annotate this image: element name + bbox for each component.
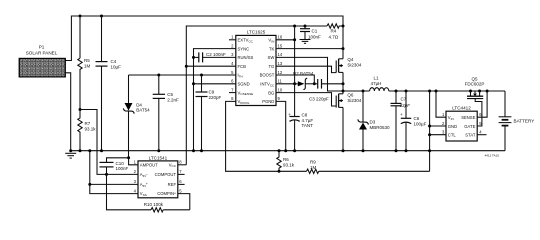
comparator box LTC1541 <box>138 155 178 197</box>
wire output rail <box>343 90 370 92</box>
resistor R10 100k <box>144 202 190 212</box>
wire PGND pin 9 to ground <box>276 101 286 150</box>
wire FCB / VIN top link / LTC1541 VCC column <box>186 26 305 165</box>
svg-text:FDC602P: FDC602P <box>465 82 485 87</box>
pin 7 stub COMPOUT <box>178 173 185 175</box>
svg-text:Si2304: Si2304 <box>347 62 362 67</box>
wire SYNC / SGND / C2 ground column <box>194 49 236 151</box>
svg-text:BATTERY: BATTERY <box>514 119 535 124</box>
svg-text:7: 7 <box>231 87 234 92</box>
wire INTVCC pin 11 <box>276 83 298 85</box>
svg-text:4.7µF: 4.7µF <box>302 118 314 123</box>
node top rail C4 tap <box>100 15 103 18</box>
wire output rail right <box>389 90 505 92</box>
LTC1625 right pin labels <box>260 38 275 105</box>
svg-text:3: 3 <box>134 179 137 184</box>
svg-text:4: 4 <box>479 130 482 135</box>
ideal diode box LTC4412 <box>446 106 477 142</box>
svg-text:Q6: Q6 <box>347 93 354 98</box>
svg-text:R9: R9 <box>310 160 316 165</box>
svg-text:EXTVCC: EXTVCC <box>238 38 254 44</box>
svg-text:2.2nF: 2.2nF <box>167 98 179 103</box>
transistor Q6 Si2304 <box>336 91 362 152</box>
svg-text:VSS: VSS <box>140 191 147 197</box>
svg-text:5: 5 <box>179 188 182 193</box>
svg-text:RUN/SS: RUN/SS <box>238 55 254 60</box>
inductor L1 47uH <box>370 76 389 92</box>
svg-text:8: 8 <box>231 96 234 101</box>
svg-text:C3 220pF: C3 220pF <box>309 97 329 102</box>
LTC1625 left pin labels <box>238 38 254 105</box>
svg-text:D3: D3 <box>370 120 376 125</box>
wire VPROG loop (pin 8) <box>226 101 279 171</box>
svg-text:4: 4 <box>134 188 137 193</box>
svg-text:+: + <box>288 112 291 117</box>
resistor R6 93.1k <box>277 149 295 173</box>
node VIN / R4 right <box>342 25 345 28</box>
wire BOOST pin 12 to D2/C3 junction <box>276 75 314 84</box>
svg-text:TK: TK <box>269 46 275 51</box>
wire VIN pin 16 riser and INTVCC tie / C8 column <box>294 26 296 117</box>
svg-text:C8: C8 <box>302 113 308 118</box>
svg-text:COMPIN+: COMPIN+ <box>157 191 176 196</box>
wire ITH net (LTC1625 pin 5) <box>129 74 236 76</box>
svg-text:GATE: GATE <box>464 124 475 129</box>
svg-text:R4: R4 <box>331 29 337 34</box>
diode D2 BAT54 <box>293 71 318 90</box>
capacitor C10 100nF <box>100 161 129 175</box>
svg-text:C9: C9 <box>209 90 215 95</box>
ground rail <box>71 150 505 152</box>
resistor R7 93.1k <box>78 108 96 152</box>
svg-text:220pF: 220pF <box>209 95 222 100</box>
svg-text:1M: 1M <box>310 165 317 170</box>
svg-text:C4: C4 <box>111 59 117 64</box>
svg-text:3: 3 <box>231 52 234 57</box>
svg-text:100nF: 100nF <box>116 166 129 171</box>
capacitor C6 100uF <box>400 90 427 153</box>
capacitor C7 33uF <box>391 90 411 153</box>
svg-text:C1: C1 <box>312 29 318 34</box>
svg-text:93.1k: 93.1k <box>283 163 295 168</box>
svg-text:5: 5 <box>231 70 234 75</box>
svg-text:PGND: PGND <box>262 99 274 104</box>
svg-text:+: + <box>400 112 403 117</box>
pin 6 stub REF <box>178 183 185 185</box>
node top rail R5 tap <box>79 15 82 18</box>
svg-text:2: 2 <box>134 169 137 174</box>
capacitor C5 2.2nF <box>153 74 179 153</box>
svg-text:1M: 1M <box>84 64 91 69</box>
svg-text:INTVCC: INTVCC <box>260 82 275 88</box>
svg-text:BG: BG <box>268 90 274 95</box>
svg-text:AMPOUT: AMPOUT <box>140 162 158 167</box>
diode D4 BAT54 <box>123 75 150 158</box>
LTC1625 pin numbers left <box>231 35 234 102</box>
svg-text:16: 16 <box>278 35 283 40</box>
svg-text:TANT: TANT <box>302 123 314 128</box>
svg-text:9: 9 <box>278 96 281 101</box>
wire GATE pin 5 to Q5 gate <box>475 99 482 126</box>
wire SGND pin 6 <box>194 83 236 85</box>
svg-text:Si2304: Si2304 <box>347 98 362 103</box>
svg-text:100µF: 100µF <box>414 121 427 126</box>
wire divider tap to AIN- of LTC1541 <box>80 110 138 175</box>
svg-text:6: 6 <box>179 179 182 184</box>
wire CTL pin 3 <box>430 134 446 136</box>
svg-text:VIN: VIN <box>448 115 454 121</box>
svg-text:P1: P1 <box>39 44 45 49</box>
capacitor C8 4.7uF TANT <box>288 112 313 152</box>
svg-text:11: 11 <box>278 79 283 84</box>
svg-text:10µF: 10µF <box>111 65 122 70</box>
svg-text:L1: L1 <box>373 76 379 81</box>
svg-text:AIN+: AIN+ <box>140 182 148 188</box>
resistor R9 1M <box>279 160 430 174</box>
resistor R4 4.7ohm <box>305 24 343 40</box>
node switch node <box>342 90 345 93</box>
svg-text:LTC1625: LTC1625 <box>247 30 266 35</box>
svg-text:4: 4 <box>231 61 234 66</box>
svg-text:STAT: STAT <box>465 133 476 138</box>
wire AIN+ pin 3 to ground <box>90 151 138 194</box>
ground symbol at panel minus <box>65 149 76 158</box>
svg-text:R5: R5 <box>84 58 90 63</box>
svg-text:12: 12 <box>278 70 283 75</box>
svg-text:93.1k: 93.1k <box>85 127 97 132</box>
resistor R5 1M <box>78 16 91 110</box>
svg-text:6: 6 <box>231 79 234 84</box>
battery <box>499 91 535 151</box>
svg-text:1: 1 <box>442 112 445 117</box>
solar panel P1 <box>19 44 65 77</box>
capacitor C4 10uF <box>96 16 122 152</box>
svg-text:VOSENSE: VOSENSE <box>238 90 254 96</box>
svg-text:4412 TA10: 4412 TA10 <box>485 154 500 158</box>
svg-text:VIN: VIN <box>268 38 274 44</box>
pin 7 stub VOSENSE <box>229 92 236 94</box>
ground symbol under C1 <box>300 40 311 44</box>
svg-text:1: 1 <box>134 160 137 165</box>
svg-text:13: 13 <box>278 61 283 66</box>
wire VIN pin 1 riser <box>436 91 446 117</box>
svg-text:1: 1 <box>231 35 234 40</box>
svg-text:Q5: Q5 <box>471 76 478 81</box>
svg-text:ITH: ITH <box>238 73 243 79</box>
wire BG pin 10 to Q6 gate <box>276 93 336 106</box>
svg-text:3: 3 <box>442 130 445 135</box>
svg-text:CTL: CTL <box>448 133 457 138</box>
wire GND pin 2 to ground rail <box>430 125 446 127</box>
svg-text:8: 8 <box>179 160 182 165</box>
svg-text:COMPOUT: COMPOUT <box>155 172 177 177</box>
svg-text:C5: C5 <box>167 92 173 97</box>
capacitor C1 100nF <box>300 25 321 40</box>
svg-text:BAT54: BAT54 <box>136 108 150 113</box>
diode D3 MBR0530 <box>358 90 390 153</box>
wire R10 loop from AIN- node to COMPIN+ <box>107 174 152 209</box>
svg-text:TG: TG <box>268 64 274 69</box>
svg-text:2: 2 <box>231 43 234 48</box>
svg-text:2: 2 <box>442 121 445 126</box>
wire COMPIN+ pin 5 <box>178 194 190 210</box>
wire SW pin 14 to switch node <box>276 57 343 91</box>
svg-text:VCC: VCC <box>169 162 177 168</box>
svg-text:AIN–: AIN– <box>140 172 148 178</box>
svg-text:SENSE: SENSE <box>461 115 475 120</box>
svg-text:15: 15 <box>278 43 283 48</box>
wire top rail from solar panel plus <box>65 16 343 61</box>
wire LTC1541 VCC pin 8 <box>178 164 187 166</box>
svg-text:R10 100k: R10 100k <box>144 202 164 207</box>
svg-text:REF: REF <box>168 182 177 187</box>
svg-text:SGND: SGND <box>238 82 250 87</box>
svg-text:VPROG: VPROG <box>238 99 251 105</box>
svg-text:33µF: 33µF <box>400 103 411 108</box>
svg-text:R7: R7 <box>85 121 91 126</box>
node AIN- / C10 / R10 junction <box>105 173 108 176</box>
svg-text:7: 7 <box>179 169 182 174</box>
transistor Q5 FDC602P <box>465 76 485 98</box>
svg-text:BOOST: BOOST <box>260 73 275 78</box>
svg-text:10: 10 <box>278 87 283 92</box>
svg-text:47µH: 47µH <box>371 81 382 86</box>
svg-text:4.7Ω: 4.7Ω <box>329 35 339 40</box>
op-amp box LTC1625 <box>236 30 276 106</box>
capacitor C2 100nF on RUN/SS <box>194 52 236 62</box>
svg-text:D2 BAT54: D2 BAT54 <box>293 71 314 76</box>
svg-text:SOLAR PANEL: SOLAR PANEL <box>26 50 58 55</box>
transistor Q4 Si2304 <box>336 26 362 91</box>
wire TG pin 13 to Q4 gate <box>276 66 336 72</box>
svg-text:MBR0530: MBR0530 <box>370 125 391 130</box>
svg-text:C2 100nF: C2 100nF <box>206 52 226 57</box>
svg-text:100nF: 100nF <box>308 35 321 40</box>
wire AMPOUT pin 1 <box>107 158 139 165</box>
svg-text:14: 14 <box>278 52 283 57</box>
svg-text:C6: C6 <box>414 116 420 121</box>
svg-text:GND: GND <box>448 124 457 129</box>
wire TK pin 15 to Q4 drain <box>276 48 343 50</box>
wire FCB pin 4 <box>186 65 236 67</box>
svg-text:FCB: FCB <box>238 64 247 69</box>
capacitor C9 220pF <box>196 74 222 153</box>
wire R9 riser to output rail <box>429 91 431 171</box>
svg-text:SW: SW <box>268 55 275 60</box>
pin 1 stub EXTVCC <box>229 39 236 41</box>
pin 4 stub STAT <box>477 134 486 136</box>
svg-text:D4: D4 <box>136 102 142 107</box>
svg-text:R6: R6 <box>283 157 289 162</box>
wire SENSE pin 6 to battery node <box>477 91 487 117</box>
capacitor C3 220pF <box>309 79 345 102</box>
svg-text:LTC4412: LTC4412 <box>452 106 471 111</box>
svg-text:SYNC: SYNC <box>238 46 250 51</box>
svg-text:LTC1541: LTC1541 <box>149 155 168 160</box>
LTC1625 pin numbers right <box>278 35 283 102</box>
wire solar panel minus to ground rail <box>65 73 70 151</box>
svg-text:Q4: Q4 <box>347 57 354 62</box>
